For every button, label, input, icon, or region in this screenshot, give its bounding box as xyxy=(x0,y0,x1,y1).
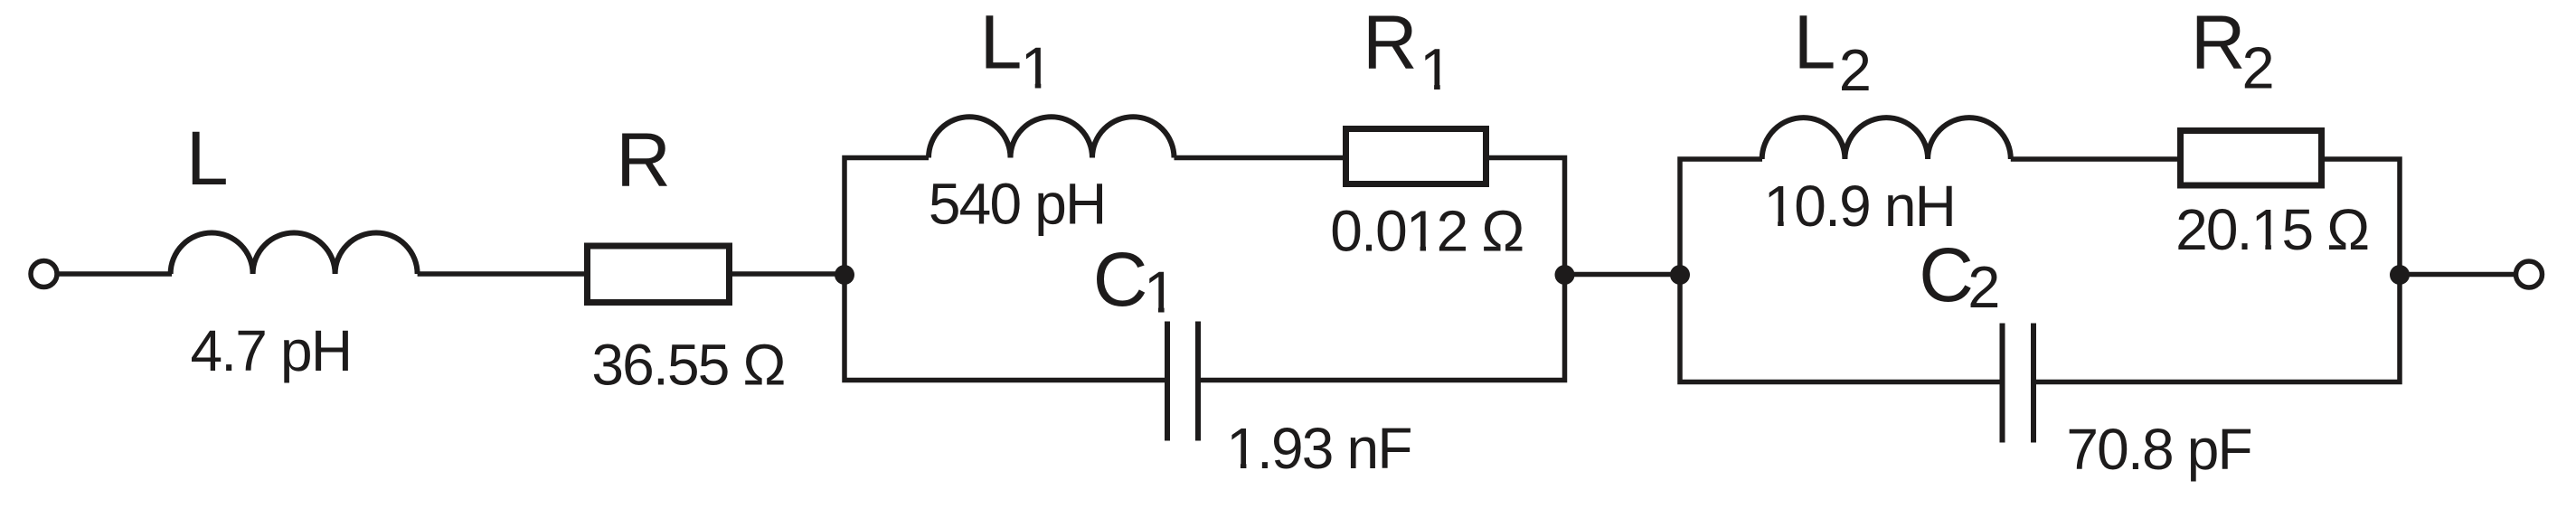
inductor L xyxy=(171,233,418,275)
wire input to L xyxy=(58,271,173,277)
resistor R2 xyxy=(2181,131,2322,186)
resistor R1 xyxy=(1346,129,1486,184)
inductor L1 xyxy=(929,117,1175,157)
svg-text:L: L xyxy=(1794,0,1836,84)
svg-text:R: R xyxy=(1363,0,1418,84)
svg-text:2: 2 xyxy=(1967,254,2000,320)
svg-text:4.7 pH: 4.7 pH xyxy=(191,318,352,383)
wire L to R xyxy=(418,271,587,277)
svg-text:R: R xyxy=(616,118,671,202)
inductor L2 xyxy=(1762,118,2011,159)
wire R1 to tank1 right vertical xyxy=(1198,158,1565,381)
wire node D to output xyxy=(2400,272,2515,278)
node B junction dot xyxy=(1555,265,1575,285)
svg-text:20.15 Ω: 20.15 Ω xyxy=(2175,197,2368,262)
digit style adjustments xyxy=(1024,83,2282,469)
node D junction dot xyxy=(2390,265,2410,285)
capacitor C2 xyxy=(2003,324,2034,443)
input terminal xyxy=(31,261,57,287)
svg-text:36.55 Ω: 36.55 Ω xyxy=(591,332,784,397)
svg-text:1: 1 xyxy=(1420,36,1452,102)
resistor R xyxy=(588,246,730,303)
output terminal xyxy=(2516,261,2543,287)
svg-text:L: L xyxy=(980,0,1023,84)
svg-text:0.012 Ω: 0.012 Ω xyxy=(1330,199,1523,264)
svg-text:1: 1 xyxy=(1021,35,1053,101)
svg-text:C: C xyxy=(1093,237,1148,322)
svg-text:R: R xyxy=(2191,0,2246,84)
wire R2 to tank2 right vertical xyxy=(2035,159,2401,382)
capacitor C1 xyxy=(1167,322,1198,441)
node C junction dot xyxy=(1670,265,1690,285)
svg-text:C: C xyxy=(1919,232,1974,317)
wire tank2 left vertical xyxy=(1680,159,2004,382)
svg-text:L: L xyxy=(186,116,229,201)
svg-text:10.9 nH: 10.9 nH xyxy=(1764,174,1956,239)
wire link between stages xyxy=(1565,272,1681,278)
svg-text:2: 2 xyxy=(2242,35,2275,101)
wire tank1 left vertical xyxy=(845,158,1168,381)
svg-text:1.93 nF: 1.93 nF xyxy=(1226,416,1411,481)
svg-text:2: 2 xyxy=(1839,37,1872,103)
wire L2 to R2 xyxy=(2011,156,2179,162)
node A junction dot xyxy=(835,265,854,285)
wire R to node A xyxy=(730,271,845,277)
wire L1 to R1 xyxy=(1175,155,1345,161)
svg-text:70.8 pF: 70.8 pF xyxy=(2066,417,2250,482)
svg-text:1: 1 xyxy=(1144,259,1176,325)
svg-text:540 pH: 540 pH xyxy=(929,171,1106,236)
